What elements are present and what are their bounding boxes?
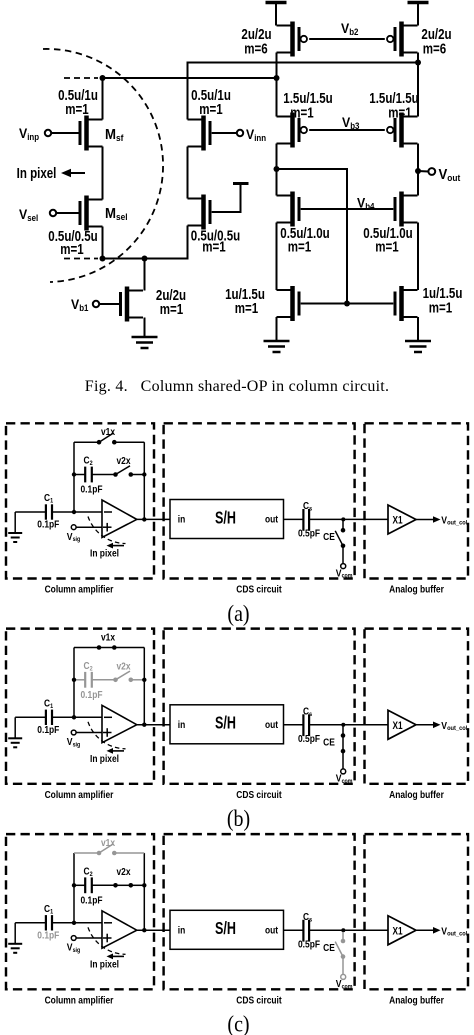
svg-text:Analog buffer: Analog buffer <box>389 584 444 595</box>
dashed box Column amplifier <box>6 423 154 578</box>
bias tick bar (gate supply) <box>233 182 249 185</box>
svg-text:m=1: m=1 <box>288 238 312 255</box>
wire left cascode node to mirror gates <box>277 169 348 304</box>
junction dot right PMOS drain node <box>415 60 421 66</box>
wire Vsel gate <box>56 212 80 214</box>
wire S/H out to Cs <box>284 929 304 931</box>
wire right rail MP2 drain to MP4 source <box>417 53 419 117</box>
op-amp plus sign <box>103 523 112 532</box>
wire Vsig to plus input <box>76 526 102 528</box>
wire op-amp output to S/H in <box>137 518 170 520</box>
VDD supply left <box>266 3 287 26</box>
capacitor Cs 0.5pF <box>303 509 309 531</box>
wire C1 to inverting input <box>52 922 112 924</box>
In pixel arrow <box>112 545 124 547</box>
svg-text:CDS circuit: CDS circuit <box>236 789 281 800</box>
wire feedback left vertical <box>73 853 75 923</box>
svg-text:v1x: v1x <box>101 426 115 437</box>
analog buffer X1 <box>388 505 416 534</box>
wire Minn drain rail up and across to right PMOS drain y=62.5 <box>188 63 419 120</box>
capacitor Cs 0.5pF <box>303 714 309 736</box>
svg-text:m=1: m=1 <box>199 101 223 118</box>
input terminal Vsel <box>50 210 56 216</box>
junction dot left cascode node <box>274 166 280 172</box>
svg-text:m=6: m=6 <box>244 40 267 57</box>
junction dot CE tap <box>341 517 345 521</box>
wire feedback right vertical <box>143 648 145 725</box>
op-amp plus sign <box>103 728 112 737</box>
wire X1 output arrow <box>416 724 433 726</box>
junction dot feedback right <box>142 678 146 682</box>
junction dot node A left <box>100 75 106 81</box>
junction dot inverting input node <box>72 510 76 514</box>
svg-text:Column amplifier: Column amplifier <box>45 789 114 800</box>
wire MN4 source to MN2 drain <box>417 223 419 291</box>
svg-text:Analog buffer: Analog buffer <box>389 789 444 800</box>
transistor Minn input device 0.5u/1u (gate Vinn) <box>188 116 211 151</box>
switch v2x <box>113 883 144 888</box>
svg-text:S/H: S/H <box>215 919 236 939</box>
svg-text:S/H: S/H <box>215 714 236 734</box>
wire Msel source down to column line <box>102 227 104 259</box>
capacitor C1 0.1pF <box>46 710 52 725</box>
wire pixel column rail (Msf drain up to node) <box>102 78 104 120</box>
wire C1 to inverting input <box>52 511 112 513</box>
pixel boundary dashed stub top <box>64 77 98 79</box>
svg-text:CE: CE <box>323 531 335 542</box>
wire MN1 source to ground <box>276 317 278 341</box>
wire Vsig to plus input <box>76 937 102 939</box>
svg-text:CE: CE <box>323 737 335 748</box>
dashed box Column amplifier <box>6 834 154 989</box>
S/H block <box>170 500 284 539</box>
junction dot CE tap <box>341 723 345 727</box>
wire C1 to inverting input <box>52 716 112 718</box>
S/H block <box>170 705 284 744</box>
wire ground to C1 <box>15 511 45 513</box>
junction dot op-amp output <box>142 723 146 727</box>
wire ground to C1 <box>15 922 45 924</box>
svg-text:Column amplifier: Column amplifier <box>45 995 114 1006</box>
svg-text:in: in <box>178 925 185 936</box>
capacitor C2 0.1pF <box>74 672 116 688</box>
wire Vinp gate <box>51 132 80 134</box>
svg-text:X1: X1 <box>392 720 403 732</box>
svg-text:In pixel: In pixel <box>17 165 57 182</box>
op-amp plus sign <box>103 934 112 943</box>
capacitor C1 0.1pF <box>46 915 52 930</box>
op-amp minus sign <box>104 511 112 513</box>
capacitor C2 0.1pF <box>74 467 116 483</box>
svg-text:0.1pF: 0.1pF <box>80 895 102 906</box>
pixel boundary dashed arc <box>43 49 163 282</box>
arrow In pixel <box>70 172 85 174</box>
dashed box Analog buffer <box>365 423 469 578</box>
junction dot feedback right <box>142 883 146 887</box>
svg-text:0.1pF: 0.1pF <box>37 724 59 735</box>
svg-text:X1: X1 <box>392 925 403 937</box>
wire op-amp output to S/H in <box>137 724 170 726</box>
non-inverting input terminal Vsig <box>71 525 76 530</box>
ground under Mb1 <box>132 337 158 348</box>
wire X1 output arrow <box>416 929 433 931</box>
wire S/H out to Cs <box>284 518 304 520</box>
junction dot op-amp output <box>142 928 146 932</box>
svg-text:in: in <box>178 719 185 730</box>
wire MP3 drain to MN3 drain (left output rail) <box>276 144 278 196</box>
svg-text:0.1pF: 0.1pF <box>80 689 102 700</box>
svg-text:0.5pF: 0.5pF <box>298 939 320 950</box>
svg-text:0.1pF: 0.1pF <box>37 519 59 530</box>
wire Vb2 gate net <box>309 38 385 40</box>
wire Cs to buffer X1 <box>309 724 388 726</box>
junction dot inverting input node <box>72 715 76 719</box>
wire feedback left vertical <box>73 648 75 718</box>
capacitor Cs 0.5pF <box>303 920 309 942</box>
transistor Msel select switch 0.5u/0.5u <box>80 196 103 231</box>
wire left VDD branch down to MP1 source (via supply) / MP1 drain rail down <box>276 53 278 117</box>
svg-text:CE: CE <box>323 942 335 953</box>
svg-text:m=1: m=1 <box>388 104 412 121</box>
switch CE to Vcom <box>335 521 346 569</box>
switch v1x <box>74 844 144 856</box>
pixel boundary dashed stub bottom <box>64 258 98 260</box>
svg-text:CDS circuit: CDS circuit <box>236 584 281 595</box>
svg-text:in: in <box>178 514 185 525</box>
dashed box Analog buffer <box>365 834 469 989</box>
transistor MP2 2u/2u m=6 (right, gate Vb2) <box>387 22 418 57</box>
junction dot op-amp output <box>142 517 146 521</box>
op-amp minus sign <box>104 716 112 718</box>
transistor Mb1 tail current source 2u/2u (gate Vb1) <box>121 287 144 322</box>
wire Msf source to Msel drain <box>102 147 104 200</box>
svg-text:v1x: v1x <box>101 837 115 848</box>
capacitor C1 0.1pF <box>46 504 52 519</box>
wire mirror gate net y=303.5 <box>301 303 394 305</box>
op-amp U1 (column amplifier) <box>102 500 137 537</box>
svg-text:m=1: m=1 <box>235 300 259 317</box>
op-amp minus sign <box>104 922 112 924</box>
svg-text:0.5pF: 0.5pF <box>298 733 320 744</box>
svg-text:v1x: v1x <box>101 632 115 643</box>
svg-text:(c): (c) <box>227 1011 249 1035</box>
svg-text:m=1: m=1 <box>60 241 84 258</box>
svg-text:In pixel: In pixel <box>90 959 119 970</box>
transistor MP3 1.5u/1.5u (left cascode, gate Vb3) <box>277 113 307 148</box>
junction dot feedback right <box>142 472 146 476</box>
analog buffer X1 <box>388 916 416 945</box>
wire ground to C1 <box>15 716 45 718</box>
In pixel dashed arc <box>88 517 126 544</box>
switch CE to Vcom <box>335 932 346 980</box>
junction dot feedback left <box>72 883 76 887</box>
junction dot Vout node <box>415 168 421 174</box>
wire feedback right vertical <box>143 853 145 930</box>
transistor MP1 2u/2u m=6 (left, gate Vb2) <box>277 22 307 57</box>
In pixel dashed arc <box>88 722 126 749</box>
svg-text:In pixel: In pixel <box>90 548 119 559</box>
ground at amplifier input <box>14 717 16 738</box>
dashed box CDS circuit <box>164 423 355 578</box>
svg-text:CDS circuit: CDS circuit <box>236 995 281 1006</box>
svg-text:m=1: m=1 <box>375 238 399 255</box>
junction dot node A right <box>274 75 280 81</box>
wire Vb4 gate net <box>301 208 394 210</box>
wire M5 source down and left to column node <box>103 226 188 259</box>
wire M5 gate to tick <box>212 184 241 212</box>
svg-text:v2x: v2x <box>116 866 130 877</box>
switch v1x <box>74 645 144 650</box>
svg-text:m=1: m=1 <box>429 299 453 316</box>
wire feedback left vertical <box>73 442 75 512</box>
transistor MN2 mirror 1u/1.5u (right) <box>395 286 418 321</box>
svg-text:In pixel: In pixel <box>90 753 119 764</box>
svg-text:v2x: v2x <box>116 661 130 672</box>
svg-text:X1: X1 <box>392 514 403 526</box>
wire X1 output arrow <box>416 519 433 521</box>
wire Vb1 gate <box>99 303 121 305</box>
In pixel arrow <box>112 750 124 752</box>
junction dot tail node <box>142 256 148 262</box>
wire Vsig to plus input <box>76 732 102 734</box>
ground left mirror <box>264 341 290 352</box>
transistor MN3 cascode 0.5u/1.0u (left, gate Vb4) <box>277 192 300 227</box>
svg-text:S/H: S/H <box>215 508 236 528</box>
junction dot column node <box>100 256 106 262</box>
wire MP4 drain to MN4 drain through Vout node <box>417 144 419 196</box>
op-amp U1 (column amplifier) <box>102 911 137 948</box>
dashed box CDS circuit <box>164 629 355 784</box>
input terminal Vb1 <box>93 301 99 307</box>
switch CE to Vcom <box>341 726 346 774</box>
dashed box Analog buffer <box>365 629 469 784</box>
transistor MP4 1.5u/1.5u (right cascode, gate Vb3) <box>387 113 418 148</box>
dashed box Column amplifier <box>6 629 154 784</box>
svg-text:0.1pF: 0.1pF <box>80 484 102 495</box>
svg-text:out: out <box>265 719 278 730</box>
In pixel arrow <box>112 955 124 957</box>
switch v1x <box>74 433 144 445</box>
op-amp U1 (column amplifier) <box>102 705 137 742</box>
svg-text:0.1pF: 0.1pF <box>37 930 59 941</box>
capacitor C2 0.1pF <box>74 877 116 893</box>
switch v2x <box>113 671 144 682</box>
ground right mirror <box>405 341 431 352</box>
svg-text:out: out <box>265 514 278 525</box>
svg-text:m=6: m=6 <box>423 40 446 57</box>
svg-text:0.5pF: 0.5pF <box>298 528 320 539</box>
input terminal Vinp <box>45 130 51 136</box>
wire Vinn gate <box>212 132 238 134</box>
junction dot feedback left <box>72 678 76 682</box>
wire MN3 source to MN1 drain <box>276 223 278 291</box>
svg-text:m=1: m=1 <box>202 238 226 255</box>
dashed box CDS circuit <box>164 834 355 989</box>
wire Mb1 drain up to tail node <box>144 259 146 291</box>
svg-text:Fig. 4. Column shared-OP in: Fig. 4. Column shared-OP in column circu… <box>85 378 389 395</box>
transistor MN1 mirror 1u/1.5u (left) <box>277 286 300 321</box>
output terminal Vout <box>428 168 435 175</box>
wire Vb3 gate net <box>309 129 385 131</box>
In pixel dashed arc <box>88 927 126 954</box>
wire Mb1 source down to ground <box>144 318 146 338</box>
switch v2x <box>113 466 144 477</box>
analog buffer X1 <box>388 710 416 739</box>
svg-text:out: out <box>265 925 278 936</box>
junction dot inverting input node <box>72 921 76 925</box>
svg-text:m=1: m=1 <box>65 101 89 118</box>
svg-text:v2x: v2x <box>116 455 130 466</box>
ground at amplifier input <box>14 923 16 944</box>
svg-text:(b): (b) <box>227 806 250 832</box>
transistor M5 cascode 0.5u/0.5u (gate to bias tick) <box>188 195 211 230</box>
wire Minn source to M5 drain <box>187 147 189 199</box>
svg-text:m=1: m=1 <box>160 301 184 318</box>
transistor MN4 cascode 0.5u/1.0u (right, gate Vb4) <box>395 192 418 227</box>
svg-text:(a): (a) <box>227 600 249 626</box>
wire Cs to buffer X1 <box>309 929 388 931</box>
wire feedback right vertical <box>143 442 145 519</box>
S/H block <box>170 910 284 949</box>
junction dot mirror gate node <box>344 301 350 307</box>
non-inverting input terminal Vsig <box>71 936 76 941</box>
wire op-amp output to S/H in <box>137 929 170 931</box>
wire S/H out to Cs <box>284 724 304 726</box>
input terminal Vinn <box>237 130 243 136</box>
junction dot CE tap <box>341 928 345 932</box>
VDD supply right <box>408 3 429 26</box>
wire Vout stub <box>418 170 428 173</box>
junction dot feedback left <box>72 472 76 476</box>
transistor Msf source follower 0.5u/1u <box>80 116 103 151</box>
non-inverting input terminal Vsig <box>71 730 76 735</box>
svg-text:m=1: m=1 <box>290 104 314 121</box>
wire Cs to buffer X1 <box>309 518 388 520</box>
wire node A horizontal (Msf drain to left PMOS drain) y=78 <box>103 77 277 79</box>
svg-text:Analog buffer: Analog buffer <box>389 995 444 1006</box>
ground at amplifier input <box>14 512 16 533</box>
wire MN2 source to ground <box>417 317 419 341</box>
svg-text:Column amplifier: Column amplifier <box>45 584 114 595</box>
